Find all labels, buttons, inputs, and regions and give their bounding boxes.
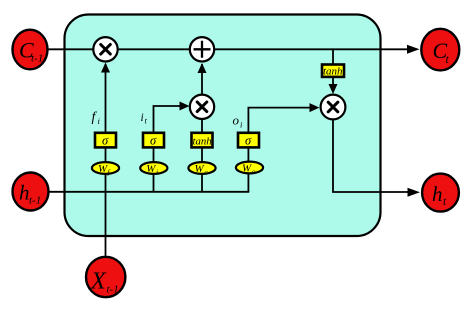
- svg-text:o: o: [252, 167, 256, 176]
- svg-text:W: W: [195, 163, 205, 175]
- svg-text:σ: σ: [102, 134, 109, 148]
- svg-text:σ: σ: [150, 134, 157, 148]
- svg-text:tanh: tanh: [193, 135, 212, 147]
- svg-text:t-1: t-1: [31, 53, 43, 65]
- svg-text:i: i: [141, 112, 144, 124]
- svg-text:h: h: [432, 182, 443, 206]
- svg-text:W: W: [146, 163, 156, 175]
- svg-text:W: W: [98, 163, 108, 175]
- svg-text:tanh: tanh: [323, 66, 343, 78]
- svg-text:X: X: [90, 269, 107, 295]
- svg-text:t-1: t-1: [107, 284, 119, 296]
- svg-text:W: W: [242, 162, 252, 174]
- svg-text:o: o: [233, 113, 240, 128]
- svg-text:t-1: t-1: [29, 195, 41, 207]
- svg-text:i: i: [156, 167, 158, 176]
- svg-text:h: h: [19, 181, 30, 205]
- svg-text:σ: σ: [245, 134, 252, 148]
